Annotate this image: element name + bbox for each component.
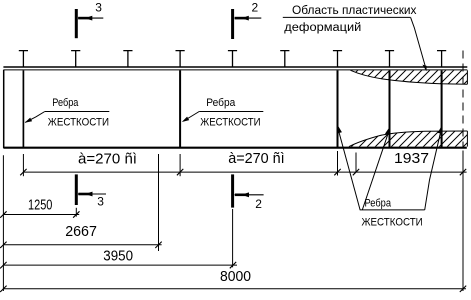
- stiffener rib 5: [441, 70, 443, 147]
- svg-text:Область пластических: Область пластических: [292, 5, 417, 17]
- label ribs 1 leader: [25, 112, 45, 123]
- svg-text:ЖЕСТКОСТИ: ЖЕСТКОСТИ: [200, 117, 260, 129]
- extension line x=337.5: [337, 151, 339, 176]
- beam left end edge: [3, 70, 5, 148]
- 1250 tick left: [0, 211, 6, 217]
- stiffener rib 4: [389, 70, 391, 147]
- section mark 2 top arrowhead: [241, 16, 249, 21]
- svg-text:2667: 2667: [65, 224, 97, 240]
- label ribs 2 underline: [199, 111, 263, 113]
- svg-text:Ребра: Ребра: [52, 97, 79, 109]
- row1 tick x=23.4: [20, 169, 26, 175]
- bottom plastic zone boundary curve: [349, 131, 467, 147]
- dimension line 1250: [3, 214, 79, 216]
- extension line below section 3: [75, 208, 77, 217]
- extension line right x=463: [462, 151, 464, 292]
- section mark 3 bottom arrowhead: [85, 192, 93, 197]
- svg-text:Ребра: Ребра: [206, 97, 236, 109]
- label ribs 2 arrowhead: [182, 117, 189, 122]
- section mark 3 bottom arrow line: [78, 193, 106, 195]
- label ribs 3 leader C: [425, 129, 442, 210]
- section mark 3 top bar: [75, 9, 78, 38]
- row1 tick x=356: [353, 169, 359, 175]
- label plastic zone arrowhead: [422, 65, 426, 72]
- 2667 tick right: [155, 242, 161, 248]
- stiffener rib 3: [337, 70, 339, 147]
- section mark 3 top arrow line: [78, 17, 103, 19]
- label ribs 3 underline: [360, 209, 425, 211]
- svg-text:à=270 ñì: à=270 ñì: [78, 151, 137, 167]
- svg-text:8000: 8000: [220, 269, 251, 285]
- label plastic zone leader: [411, 17, 426, 68]
- extension line x=356 plastic zone start: [355, 153, 357, 173]
- extension line x=180: [179, 154, 181, 176]
- section mark 2 bottom bar: [231, 174, 234, 207]
- svg-text:1937: 1937: [394, 151, 429, 167]
- row1 tick x=463: [460, 169, 466, 175]
- extension line x=158.5 (2667): [158, 154, 160, 251]
- svg-text:ЖЕСТКОСТИ: ЖЕСТКОСТИ: [362, 216, 423, 228]
- label ribs 3 leader A: [338, 128, 360, 210]
- 1250 tick right: [73, 211, 79, 217]
- svg-text:2: 2: [252, 1, 259, 15]
- row1 tick x=180: [177, 169, 183, 175]
- bottom plastic zone right edge: [466, 131, 468, 147]
- 3950 tick right: [230, 262, 236, 268]
- svg-text:Ребра: Ребра: [365, 198, 392, 210]
- beam top flange lower line: [3, 69, 467, 71]
- row1 tick x=337.5: [334, 169, 340, 175]
- label ribs 2 leader: [183, 112, 199, 122]
- 2667 tick left: [0, 242, 6, 248]
- beam symmetry center line (dashed): [462, 51, 464, 149]
- extension line below section 2: [232, 209, 234, 267]
- label plastic zone underline: [283, 16, 411, 18]
- stud posts on top flange: [19, 51, 446, 67]
- extension line left x=3.4: [2, 155, 4, 291]
- svg-text:деформаций: деформаций: [284, 22, 361, 34]
- svg-text:ЖЕСТКОСТИ: ЖЕСТКОСТИ: [48, 117, 109, 129]
- 8000 tick left: [0, 286, 6, 292]
- top plastic zone boundary curve: [351, 70, 468, 84]
- stiffener rib 1: [22, 70, 24, 147]
- dimension line 8000: [3, 288, 466, 290]
- dimension line row1 y=172: [23, 171, 466, 173]
- dimension line 2667: [3, 244, 161, 246]
- label ribs 1 underline: [45, 111, 110, 113]
- label ribs 3 leader B: [362, 130, 389, 210]
- svg-text:à=270 ñì: à=270 ñì: [228, 151, 285, 167]
- svg-text:3950: 3950: [103, 248, 133, 264]
- section mark 2 bottom arrow line: [235, 194, 264, 196]
- stiffener rib 2: [179, 70, 181, 147]
- top plastic zone right edge: [466, 70, 468, 84]
- svg-text:3: 3: [97, 195, 104, 209]
- svg-text:1250: 1250: [28, 198, 52, 214]
- dimension line 3950: [3, 264, 237, 266]
- svg-text:3: 3: [95, 1, 102, 15]
- section mark 3 bottom bar: [75, 174, 78, 205]
- label ribs 3 arrowhead C: [438, 126, 442, 134]
- label ribs 3 arrowhead A: [338, 126, 342, 134]
- section mark 2 top arrow line: [235, 17, 262, 19]
- svg-text:2: 2: [255, 197, 262, 211]
- section mark 2 bottom arrowhead: [241, 192, 249, 197]
- extension line x=23.4: [22, 154, 24, 176]
- beam top flange upper line: [3, 66, 467, 68]
- section mark 3 top arrowhead: [84, 16, 92, 21]
- 3950 tick left: [0, 262, 6, 268]
- label ribs 1 arrowhead: [25, 118, 32, 123]
- 8000 tick right: [460, 286, 466, 292]
- section mark 2 top bar: [231, 9, 234, 39]
- label ribs 3 arrowhead B: [385, 127, 389, 135]
- beam bottom flange: [3, 147, 466, 149]
